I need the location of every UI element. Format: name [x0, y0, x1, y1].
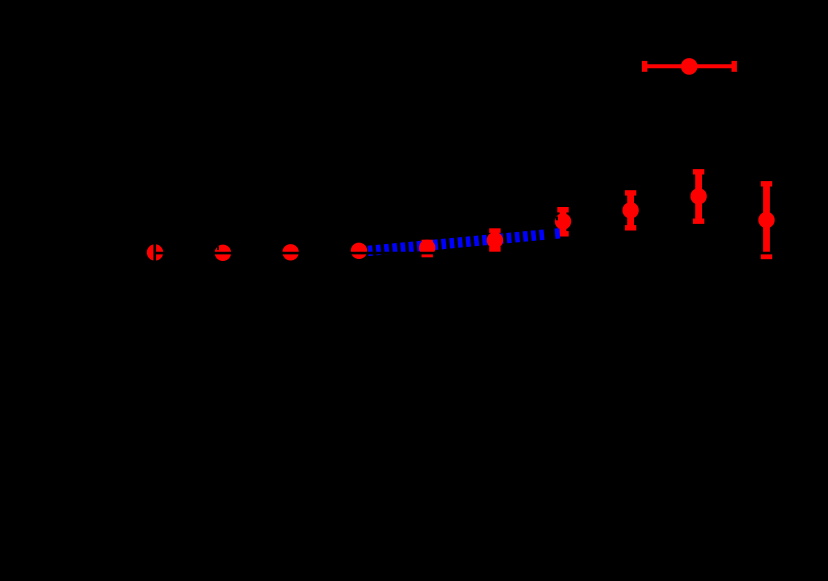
error bar M5	[422, 242, 433, 254]
fit line segment B (blue thick dashed)	[555, 228, 560, 239]
data point M8	[622, 202, 638, 218]
data point M2	[215, 245, 231, 261]
black notch on M7	[556, 217, 558, 221]
black notch on M2	[217, 246, 219, 250]
legend marker (red point with horizontal error bar)	[645, 61, 735, 72]
error bar M7	[557, 210, 568, 234]
data point M3	[282, 244, 298, 260]
black vertical tick through M1	[153, 244, 156, 262]
error bar M9	[693, 172, 704, 221]
zero line (black, overlays markers and fit)	[155, 252, 795, 255]
data point M1	[147, 244, 163, 260]
data point M5	[419, 240, 435, 256]
data point M9	[690, 188, 706, 204]
fit line segment A (blue thick dashed)	[363, 235, 545, 252]
data point M10	[758, 212, 774, 228]
data point M7	[555, 213, 571, 229]
data point M4	[351, 243, 367, 259]
data point M6	[487, 232, 503, 248]
error bar M10	[761, 184, 772, 257]
error bar M8	[625, 193, 636, 228]
error bar M6	[489, 231, 500, 250]
